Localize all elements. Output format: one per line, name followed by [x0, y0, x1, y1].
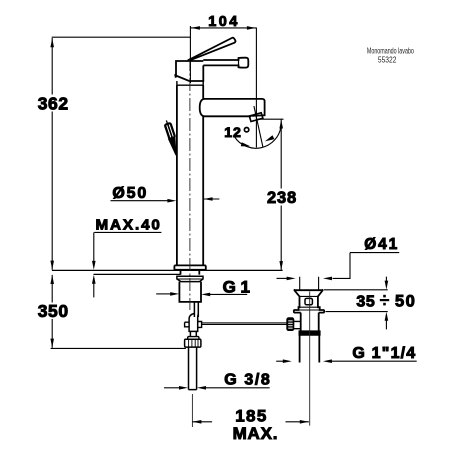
faucet body column — [177, 85, 203, 265]
svg-text:MAX.: MAX. — [233, 424, 279, 443]
drain body tube — [301, 313, 319, 331]
deck top surface line — [52, 269, 283, 271]
svg-text:55322: 55322 — [378, 55, 397, 65]
drain plug slot — [305, 298, 312, 304]
label G 3/8 (supply thread) — [164, 387, 270, 389]
dimension 362 (total height) — [52, 37, 191, 270]
svg-text:Ø50: Ø50 — [112, 185, 148, 202]
label MAX.40 (deck thickness) — [94, 232, 162, 297]
svg-text:G 3/8: G 3/8 — [224, 371, 271, 388]
pop-up rod below shank — [185, 302, 202, 390]
12 degree aerator axis line — [254, 106, 263, 147]
threaded shank G1 — [179, 282, 201, 302]
svg-text:35: 35 — [356, 293, 375, 310]
faucet centerline (dash-dot) — [189, 58, 191, 310]
supply nut (knurled) — [185, 339, 201, 347]
svg-text:12: 12 — [224, 125, 241, 141]
supply pipe centerline extension — [191, 394, 193, 427]
svg-text:238: 238 — [267, 189, 297, 207]
spout — [200, 99, 265, 116]
label G 1"1/4 (drain thread) — [276, 360, 417, 362]
dimension 185 MAX (center distance) — [192, 421, 309, 423]
svg-text:104: 104 — [208, 14, 239, 30]
svg-text:Ø41: Ø41 — [364, 236, 399, 253]
aerator (12deg tilted outlet) — [249, 113, 263, 122]
linkage block — [189, 314, 198, 332]
pop-up pull rod knob on column — [163, 119, 176, 140]
knurled ring — [299, 331, 320, 335]
12 degree arc — [235, 127, 282, 149]
svg-text:50: 50 — [395, 292, 416, 310]
dimension 35÷50 (clamping range) — [324, 277, 388, 330]
horizontal pop-up linkage rod — [202, 323, 287, 325]
faucet lever horizontal position (bar + paddle) — [203, 58, 248, 68]
svg-text:MAX.40: MAX.40 — [96, 216, 162, 233]
base flange — [174, 265, 205, 302]
lower stem — [190, 331, 196, 336]
svg-text:362: 362 — [38, 93, 69, 113]
label G 1 (shank thread) — [156, 293, 247, 296]
dimension 104 (spout reach) — [190, 26, 256, 148]
svg-text:G 1: G 1 — [223, 278, 250, 297]
through-deck band — [181, 270, 200, 275]
drain flange (Ø41 trumpet) — [294, 290, 301, 313]
deck bottom surface line — [94, 273, 181, 275]
label Ø50 (body diameter) — [111, 199, 220, 201]
faucet lever raised position — [188, 38, 236, 61]
faucet head / cartridge housing — [175, 61, 203, 85]
drain centerline — [309, 292, 311, 426]
pull rod taper to column — [169, 137, 177, 155]
dimension 350 (below deck) — [51, 275, 186, 349]
locknut below deck — [177, 276, 203, 281]
pop-up drain assembly — [294, 290, 324, 363]
dimension 238 (aerator height over deck) — [258, 119, 284, 270]
svg-text:G 1"1/4: G 1"1/4 — [352, 345, 416, 362]
svg-text:185: 185 — [235, 407, 268, 426]
drain ball-joint knurled nut — [287, 318, 301, 330]
svg-text:350: 350 — [38, 301, 69, 321]
supply pipe G3/8 — [189, 347, 197, 390]
tailpipe G1-1/4 — [300, 335, 320, 362]
label Ø41 (drain flange diameter) — [277, 253, 400, 290]
